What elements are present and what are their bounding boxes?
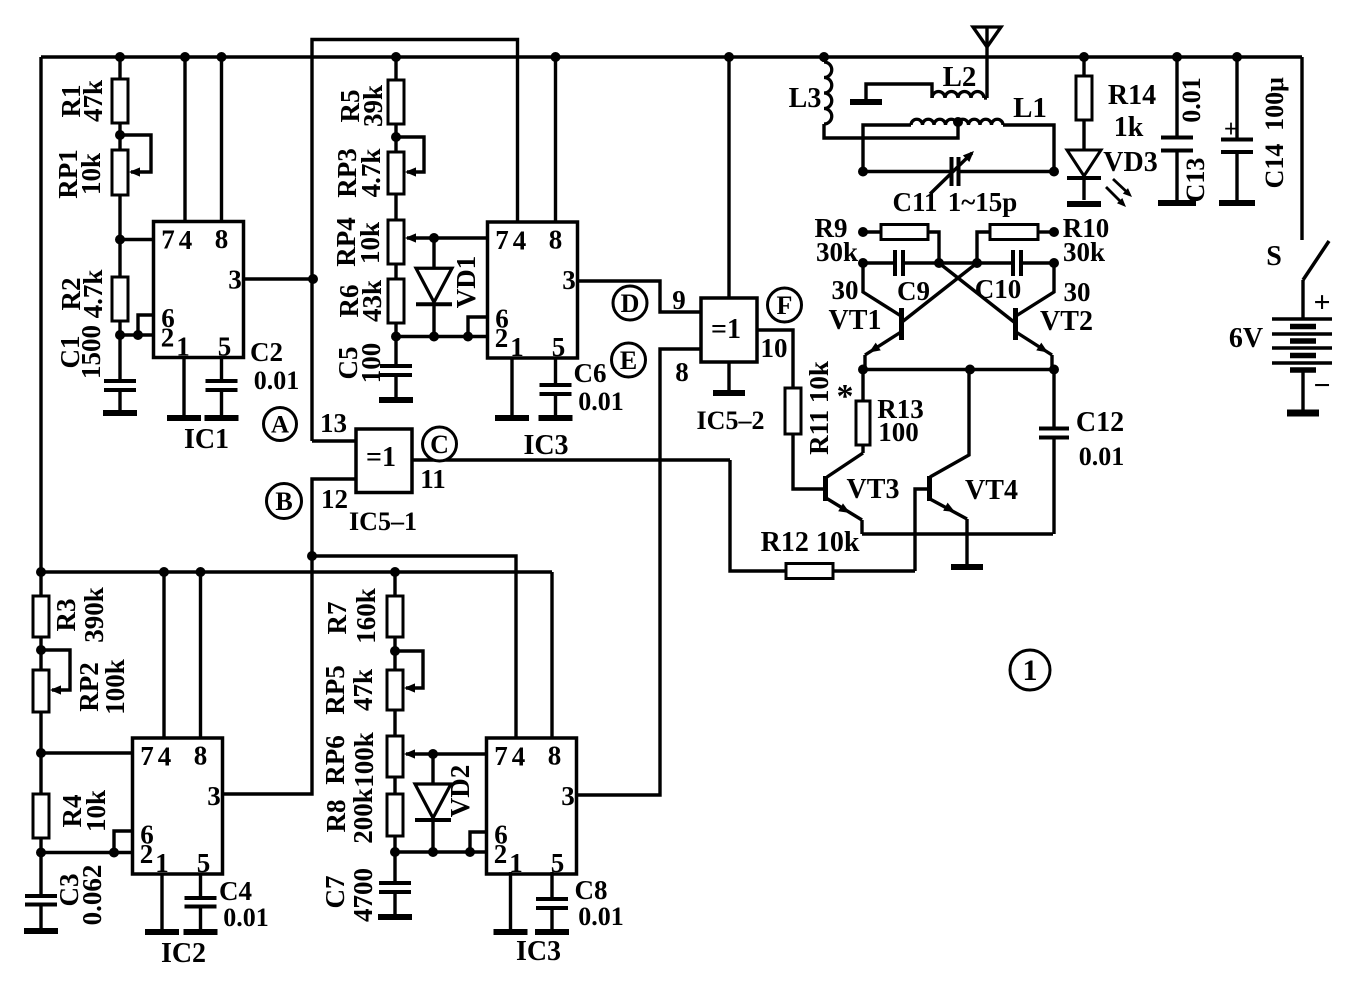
- resistor R9: [863, 225, 939, 264]
- transistor VT2: [1016, 263, 1055, 370]
- node R3/RP2 junction: [36, 645, 46, 655]
- label IC3 top: [523, 430, 568, 461]
- capacitor C7: [379, 883, 411, 915]
- wire IC2 pin5 lead: [199, 874, 202, 898]
- svg-text:R12 10k: R12 10k: [761, 527, 860, 558]
- wire IC1 pin7: [120, 238, 154, 241]
- svg-text:3: 3: [562, 265, 576, 295]
- svg-text:C4: C4: [219, 876, 252, 906]
- node IC2 pin7 junction: [36, 748, 46, 758]
- wire RP3-RP4: [394, 194, 397, 220]
- label R13: [837, 378, 924, 447]
- potentiometer RP1: [112, 135, 151, 195]
- wire lower rail right segment to R12: [730, 460, 786, 571]
- capacitor C14: [1221, 57, 1253, 201]
- wire R4-C3: [39, 838, 42, 896]
- label VT1: [829, 275, 882, 336]
- label pin 11: [420, 464, 446, 494]
- node VD1 bottom junction: [429, 332, 439, 342]
- svg-text:1: 1: [176, 332, 190, 362]
- op-amp IC1 box: [154, 222, 244, 362]
- wire IC5-1 pin12 / B net: [223, 479, 357, 794]
- svg-text:10: 10: [761, 333, 788, 363]
- node C: [423, 427, 457, 461]
- wire IC2 pin7: [41, 751, 133, 754]
- svg-text:RP5: RP5: [320, 665, 350, 715]
- wire IC1 pin8: [220, 57, 223, 222]
- svg-text:11: 11: [420, 464, 446, 494]
- wire IC1 pin6 loop: [138, 315, 154, 335]
- svg-text:C7: C7: [320, 876, 350, 909]
- node pin2 junction: [115, 330, 125, 340]
- svg-text:L2: L2: [943, 61, 977, 93]
- node VD2 bottom junction: [428, 847, 438, 857]
- svg-text:0.01: 0.01: [254, 366, 300, 395]
- svg-text:VD1: VD1: [451, 256, 481, 309]
- svg-text:B: B: [275, 487, 292, 516]
- svg-text:C: C: [430, 430, 449, 459]
- capacitor C6: [540, 385, 572, 417]
- resistor R13: [856, 370, 870, 454]
- label IC5-1: [349, 507, 417, 536]
- svg-text:VD3: VD3: [1103, 147, 1157, 178]
- ground VT4 emitter: [951, 564, 983, 570]
- label R4: [57, 790, 111, 832]
- resistor R11: [785, 388, 801, 434]
- label L1: [1013, 92, 1047, 124]
- node rail junction IC1 pin8: [217, 52, 227, 62]
- ground IC2 pin1: [145, 929, 179, 935]
- svg-text:IC5–2: IC5–2: [697, 406, 765, 435]
- node rail2 junction IC2 pin8: [196, 567, 206, 577]
- capacitor C8: [536, 899, 568, 931]
- ground L2: [850, 99, 882, 105]
- svg-text:R8: R8: [321, 800, 351, 833]
- node rail2 junction R7: [390, 567, 400, 577]
- svg-text:30k: 30k: [816, 237, 858, 267]
- label IC5-2: [697, 406, 765, 435]
- potentiometer RP3: [388, 137, 424, 194]
- wire emitter bus: [863, 368, 1054, 371]
- node emitter bus right: [1049, 365, 1059, 375]
- label IC3 bottom: [516, 936, 561, 967]
- resistor R1: [112, 79, 128, 123]
- label C1: [55, 325, 106, 379]
- ground IC3 pin1: [495, 415, 529, 421]
- resistor R6: [388, 279, 404, 323]
- wire IC2 pin4: [162, 572, 165, 738]
- antenna: [973, 27, 1001, 98]
- wire +V top rail: [41, 55, 1302, 59]
- svg-text:R3: R3: [51, 599, 81, 632]
- node cross right: [972, 258, 982, 268]
- ground C13: [1158, 200, 1196, 206]
- label C8: [575, 875, 624, 931]
- resistor R3: [33, 596, 49, 637]
- wire IC3 pin6 loop: [468, 317, 488, 337]
- svg-text:5: 5: [552, 332, 566, 362]
- label RP4: [331, 217, 385, 267]
- svg-text:A: A: [271, 412, 289, 439]
- node rail junction R14: [1079, 52, 1089, 62]
- node pin6/pin2 junction: [133, 330, 143, 340]
- label C5: [333, 343, 386, 384]
- node D: [613, 286, 647, 320]
- svg-text:C11: C11: [892, 187, 937, 217]
- svg-text:VT3: VT3: [847, 474, 900, 505]
- wire IC3 pin5 lead: [554, 358, 557, 385]
- label C10: [975, 274, 1022, 304]
- ground IC5-2: [713, 390, 745, 396]
- capacitor C13: [1161, 57, 1193, 201]
- capacitor C12: [1039, 370, 1069, 535]
- wire IC3 pin1 ground lead: [510, 358, 513, 417]
- svg-text:L3: L3: [789, 83, 822, 114]
- wire IC5-2 ground pin: [727, 362, 730, 392]
- svg-text:30k: 30k: [1063, 237, 1105, 267]
- label R2: [56, 270, 108, 319]
- svg-text:8: 8: [194, 741, 208, 771]
- diode VD2: [415, 754, 451, 852]
- node rail junction IC1 pin4: [180, 52, 190, 62]
- ground C1: [103, 410, 137, 416]
- wire R6-C5: [394, 323, 397, 366]
- svg-text:S: S: [1266, 241, 1282, 272]
- diode VD1: [416, 238, 452, 337]
- led VD3 arrows: [1106, 179, 1132, 207]
- op-amp IC3 bottom box: [487, 738, 577, 878]
- node IC2 pin2 junction: [36, 848, 46, 858]
- wire IC3 pin8: [554, 57, 557, 222]
- node pin6 loop junction: [463, 332, 473, 342]
- wire IC3b pin8: [550, 572, 553, 738]
- label RP6: [320, 732, 379, 788]
- svg-text:47k: 47k: [348, 669, 378, 711]
- svg-text:8: 8: [675, 357, 689, 387]
- potentiometer RP6: [387, 736, 487, 777]
- svg-text:1: 1: [1023, 654, 1038, 687]
- svg-text:=1: =1: [366, 442, 396, 473]
- label C6: [574, 358, 624, 416]
- svg-text:VT1: VT1: [829, 305, 882, 336]
- svg-text:10k: 10k: [81, 790, 111, 832]
- ground C4: [184, 929, 218, 935]
- svg-text:4.7k: 4.7k: [78, 270, 108, 319]
- wire IC1 pin3 to node A net: [244, 277, 314, 280]
- node B-net junction: [307, 551, 317, 561]
- svg-text:12: 12: [321, 484, 348, 514]
- svg-text:8: 8: [215, 224, 229, 254]
- svg-text:4: 4: [512, 742, 526, 772]
- wire IC2 pin6 loop: [114, 831, 133, 853]
- svg-text:RP6: RP6: [320, 735, 350, 785]
- svg-text:100k: 100k: [349, 732, 379, 788]
- node R6 bottom junction: [391, 332, 401, 342]
- svg-text:9: 9: [672, 285, 686, 315]
- svg-text:D: D: [621, 289, 640, 318]
- label R11: [804, 361, 834, 455]
- node rail junction L3: [819, 52, 829, 62]
- label pin 13: [320, 408, 347, 438]
- label R12: [761, 527, 860, 558]
- label C2: [250, 337, 299, 395]
- node VD2 top junction: [428, 749, 438, 759]
- svg-text:1: 1: [155, 848, 169, 878]
- label C14: [1260, 77, 1289, 189]
- svg-text:100: 100: [356, 343, 386, 384]
- svg-text:2: 2: [495, 323, 509, 353]
- label RP3: [332, 148, 386, 198]
- label R7: [322, 588, 381, 644]
- label R9: [815, 213, 859, 267]
- label R5: [335, 85, 388, 127]
- svg-text:13: 13: [320, 408, 347, 438]
- ground VD3: [1067, 201, 1101, 207]
- svg-text:160k: 160k: [351, 588, 381, 644]
- ground IC1 pin1: [167, 415, 201, 421]
- wire switch to battery: [1301, 280, 1304, 319]
- node A: [264, 408, 297, 441]
- svg-text:47k: 47k: [78, 80, 108, 122]
- svg-text:C13: C13: [1181, 158, 1210, 203]
- label C11: [892, 187, 1017, 217]
- svg-text:IC2: IC2: [161, 938, 206, 969]
- node C9 left: [858, 258, 868, 268]
- wire IC5-1 pin11 output C: [412, 458, 730, 461]
- wire R11-VT3 base: [793, 434, 823, 489]
- svg-text:IC5–1: IC5–1: [349, 507, 417, 536]
- svg-text:4.7k: 4.7k: [356, 149, 386, 198]
- svg-text:+: +: [1224, 116, 1238, 143]
- svg-text:2: 2: [140, 839, 154, 869]
- svg-text:100: 100: [878, 417, 919, 447]
- capacitor C4: [185, 898, 217, 931]
- svg-text:100μ: 100μ: [1260, 77, 1289, 131]
- node emitter bus centre: [965, 365, 975, 375]
- svg-text:4: 4: [513, 226, 527, 256]
- wire cross coupling 1: [939, 263, 1014, 322]
- label pin 8: [675, 357, 689, 387]
- node rail2 junction IC2 pin4: [159, 567, 169, 577]
- svg-text:43k: 43k: [357, 280, 387, 322]
- svg-text:C9: C9: [897, 276, 930, 306]
- node R9 left: [858, 227, 868, 237]
- svg-text:4700: 4700: [348, 868, 378, 922]
- battery 6V: [1272, 319, 1332, 411]
- wire rail right drop: [1300, 57, 1303, 240]
- wire R3 feed: [39, 572, 42, 596]
- svg-text:3: 3: [207, 781, 221, 811]
- wire IC3b pin1 ground lead: [509, 872, 512, 931]
- svg-text:7: 7: [494, 741, 508, 771]
- node rail junction C14: [1232, 52, 1242, 62]
- svg-text:200k: 200k: [348, 788, 378, 844]
- svg-text:7: 7: [161, 225, 175, 255]
- label C7: [320, 868, 378, 922]
- label R10: [1063, 213, 1110, 267]
- wire left border (V+ feed to R3 chain): [39, 57, 42, 572]
- wire IC3 pin3: [578, 281, 702, 312]
- potentiometer RP2: [33, 650, 70, 712]
- resistor R7: [387, 596, 403, 637]
- svg-text:*: *: [837, 378, 854, 415]
- node R10 right: [1049, 227, 1059, 237]
- svg-text:6V: 6V: [1229, 323, 1263, 354]
- ground C5: [379, 397, 413, 403]
- svg-text:10k: 10k: [355, 222, 385, 264]
- node F: [768, 288, 802, 322]
- wire IC5-1 pin13: [312, 439, 356, 442]
- label RP5: [320, 665, 378, 715]
- wire lower rail: [41, 570, 552, 574]
- label R6: [334, 280, 387, 322]
- node pin7 junction: [115, 235, 125, 245]
- svg-text:+: +: [1313, 286, 1330, 319]
- xor gate IC5-2: [701, 298, 757, 362]
- svg-text:0.01: 0.01: [1177, 77, 1206, 123]
- label RP2: [74, 659, 130, 715]
- label VT3: [847, 474, 900, 505]
- wire RP1-R2: [118, 195, 121, 277]
- node rail junction IC5-2: [724, 52, 734, 62]
- svg-text:1500: 1500: [76, 325, 106, 379]
- svg-text:C2: C2: [250, 337, 283, 367]
- transistor VT4: [930, 370, 970, 566]
- svg-text:5: 5: [197, 848, 211, 878]
- svg-text:L1: L1: [1013, 92, 1047, 124]
- node R1/RP1 junction: [115, 130, 125, 140]
- svg-text:IC1: IC1: [184, 424, 229, 455]
- wire R1-RP1: [118, 123, 121, 150]
- wire IC1 pin2: [120, 333, 154, 336]
- wire IC3b pin5 lead: [550, 872, 553, 899]
- svg-text:0.01: 0.01: [578, 902, 624, 931]
- node rail2 left junction: [36, 567, 46, 577]
- label L2: [943, 61, 977, 93]
- node C11 right: [1049, 167, 1059, 177]
- label S: [1266, 241, 1282, 272]
- wire R1 feed: [118, 57, 121, 79]
- wire cross coupling 2: [902, 263, 977, 322]
- svg-text:IC3: IC3: [523, 430, 568, 461]
- op-amp IC3 top box: [488, 222, 578, 362]
- svg-text:C14: C14: [1260, 144, 1289, 189]
- node L1 centre tap: [953, 117, 963, 127]
- node B: [267, 484, 302, 519]
- wire R7-RP5: [393, 637, 396, 670]
- svg-text:8: 8: [549, 225, 563, 255]
- wire pin2 bus: [396, 335, 488, 338]
- wire R7 feed: [393, 572, 396, 596]
- node cross left: [934, 258, 944, 268]
- wire R3-RP2: [39, 637, 42, 670]
- node rail junction C13: [1172, 52, 1182, 62]
- label VD1: [451, 256, 481, 309]
- ground C2: [205, 415, 239, 421]
- svg-text:C12: C12: [1076, 407, 1124, 438]
- wire RP6-R8: [393, 777, 396, 794]
- wire RP5-RP6: [393, 710, 396, 736]
- ground C7: [378, 914, 412, 920]
- wire IC3b pin6 loop: [470, 832, 487, 852]
- svg-text:VT4: VT4: [965, 475, 1018, 506]
- capacitor C3: [25, 896, 57, 931]
- wire net-A top link: [312, 40, 518, 442]
- svg-text:39k: 39k: [358, 85, 388, 127]
- label R3: [51, 587, 109, 643]
- node IC1 pin3 junction: [308, 274, 318, 284]
- svg-text:F: F: [777, 291, 793, 320]
- label VD2: [445, 765, 475, 818]
- wire R5 feed: [394, 57, 397, 80]
- svg-text:R7: R7: [322, 602, 352, 635]
- svg-text:−: −: [1313, 369, 1330, 402]
- svg-text:10k: 10k: [76, 153, 106, 195]
- resistor R14: [1076, 57, 1092, 120]
- svg-text:0.01: 0.01: [1079, 442, 1125, 471]
- label IC2: [161, 938, 206, 969]
- label IC1: [184, 424, 229, 455]
- node emitter bus left: [858, 365, 868, 375]
- svg-text:1: 1: [510, 332, 524, 362]
- node top rail junction R1: [115, 52, 125, 62]
- svg-text:2: 2: [494, 839, 508, 869]
- node top rail junction R5: [391, 52, 401, 62]
- ground C6: [539, 415, 573, 421]
- wire IC1 pin4: [183, 57, 186, 222]
- label C4: [219, 876, 269, 932]
- label VT2: [1040, 277, 1093, 337]
- label RP1: [53, 149, 106, 199]
- svg-text:3: 3: [561, 781, 575, 811]
- svg-text:R11 10k: R11 10k: [804, 361, 834, 455]
- node C10 right: [1049, 258, 1059, 268]
- node C11 left: [858, 167, 868, 177]
- switch S: [1303, 241, 1329, 280]
- node figure 1: [1010, 650, 1050, 690]
- wire RP4-R6: [394, 264, 397, 279]
- resistor R12: [786, 564, 915, 579]
- svg-text:C8: C8: [575, 875, 608, 905]
- ground IC3b pin1: [494, 929, 528, 935]
- svg-text:2: 2: [161, 323, 175, 353]
- wire net-B top link: [312, 556, 516, 738]
- svg-text:3: 3: [228, 265, 242, 295]
- svg-text:390k: 390k: [79, 587, 109, 643]
- node R8 bottom junction: [390, 847, 400, 857]
- transistor VT1: [863, 263, 902, 370]
- node R5/RP3 junction: [391, 132, 401, 142]
- transistor VT3: [826, 453, 864, 534]
- inductor L1: [863, 119, 1054, 171]
- capacitor C2: [206, 381, 238, 417]
- wire IC5-2 pin10 output: [757, 330, 793, 388]
- label R14: [1108, 80, 1156, 143]
- label battery: [1229, 286, 1331, 402]
- op-amp IC2 box: [133, 738, 223, 878]
- wire IC1 pin5 lead: [220, 358, 223, 382]
- resistor R4: [33, 794, 49, 838]
- svg-text:7: 7: [495, 225, 509, 255]
- resistor R5: [388, 80, 404, 124]
- node pin6 loop junction bottom: [465, 847, 475, 857]
- label C3: [54, 865, 107, 926]
- capacitor C5: [380, 366, 412, 398]
- node R7/RP5 junction: [390, 646, 400, 656]
- label VT4: [965, 475, 1018, 506]
- capacitor C11 variable: [863, 151, 1054, 194]
- label pin 9: [672, 285, 686, 315]
